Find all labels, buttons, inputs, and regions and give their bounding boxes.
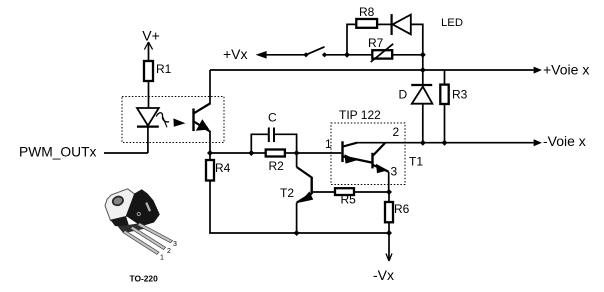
junction D bottom — [420, 140, 426, 146]
wire switch to R7 junction — [325, 54, 348, 56]
transistor T1b (darlington second) — [373, 143, 389, 173]
optocoupler dashed box — [122, 97, 224, 143]
svg-text:R2: R2 — [269, 159, 285, 173]
svg-text:D: D — [399, 88, 408, 102]
junction D top — [420, 67, 426, 73]
svg-text:+Voie x: +Voie x — [543, 62, 589, 78]
svg-text:TO-220: TO-220 — [130, 274, 159, 284]
wire bottom rail — [297, 232, 389, 234]
junction bottom rail -Vx — [386, 230, 392, 236]
svg-text:T1: T1 — [409, 154, 423, 168]
wire R5 to pin3 junction — [354, 191, 389, 193]
transistor T1a (darlington first) — [343, 141, 372, 163]
svg-text:R4: R4 — [215, 161, 231, 175]
svg-text:C: C — [268, 111, 277, 125]
TO-220 leg 1 — [123, 230, 159, 254]
wire down to +Voie rail — [422, 55, 424, 70]
capacitor C — [269, 128, 274, 143]
wire junction to TIP pin1 — [297, 152, 342, 154]
transistor T2 — [297, 153, 314, 233]
TO-220 body left bottom face — [110, 216, 129, 228]
node -Vx arrow — [386, 233, 392, 261]
switch S1 — [303, 47, 327, 58]
wire R4 top — [209, 153, 211, 160]
svg-text:R3: R3 — [452, 88, 468, 102]
resistor R1 — [144, 61, 153, 81]
resistor R8 — [356, 19, 377, 28]
junction C right / T2 collector — [294, 150, 300, 156]
svg-text:R1: R1 — [156, 62, 172, 76]
svg-text:2: 2 — [167, 248, 171, 255]
opto light arrow — [156, 113, 185, 128]
node V+ arrow — [144, 42, 152, 50]
resistor R7 (adjustable) — [347, 54, 372, 56]
junction opto emitter / R4 / R2 — [207, 150, 213, 156]
diode LED — [392, 14, 411, 35]
svg-text:-Voie x: -Voie x — [543, 133, 586, 149]
wire collectors to pin2 / -Voie rail — [357, 142, 534, 144]
svg-text:V+: V+ — [142, 28, 160, 44]
node +Vx arrow — [256, 51, 267, 59]
wire R7 right to junction — [392, 54, 423, 56]
node +Voie x arrow — [534, 67, 542, 74]
wire LED cathode down to PWM line — [147, 128, 149, 154]
wire +Vx rail from opto collector to +Voie x — [210, 69, 534, 71]
svg-text:R5: R5 — [341, 193, 357, 207]
TO-220 leg 2 — [131, 226, 166, 249]
resistor R4 — [206, 160, 214, 181]
wire R4 bottom to rail — [210, 181, 297, 234]
TO-220 mounting hole — [112, 195, 125, 206]
wire T2 base to R5 — [313, 191, 335, 193]
junction R7/R8 left — [344, 52, 350, 58]
svg-text:1: 1 — [325, 137, 332, 151]
TO-220 plastic body — [126, 189, 160, 226]
wire V+ to R1 — [148, 42, 150, 61]
junction pin3/R5/R6 — [386, 189, 392, 195]
svg-text:TIP 122: TIP 122 — [339, 108, 381, 122]
wire opto emitter down — [209, 131, 211, 153]
wire up to R8 — [347, 24, 356, 54]
diode D — [411, 70, 432, 143]
wire R8 to LED — [377, 23, 391, 25]
svg-text:1: 1 — [160, 254, 164, 261]
svg-text:3: 3 — [391, 165, 398, 179]
TO-220 leg 3 — [138, 223, 173, 243]
wire T1 emitter down to pin3 junction — [388, 172, 390, 192]
resistor R3 — [440, 70, 448, 143]
TIP122 dashed box — [331, 123, 405, 185]
svg-text:3: 3 — [173, 241, 177, 248]
wire R1 to LED anode — [148, 81, 150, 108]
wire opto collector up to +Vx rail — [209, 70, 211, 105]
resistor R5 — [335, 188, 354, 195]
wire R2 right to junction — [285, 152, 297, 154]
svg-text:LED: LED — [441, 17, 463, 29]
svg-text:R6: R6 — [394, 202, 410, 216]
TO-220 body circle mark — [137, 212, 140, 215]
svg-text:2: 2 — [393, 125, 400, 139]
wire R6 bottom — [388, 222, 390, 233]
resistor R6 — [388, 192, 390, 202]
resistor R2 — [251, 152, 265, 154]
junction R3 bottom — [442, 140, 448, 146]
svg-text:PWM_OUTx: PWM_OUTx — [19, 145, 97, 160]
TO-220 metal tab — [105, 189, 135, 221]
TO-220 bottom face — [118, 223, 146, 233]
svg-text:+Vx: +Vx — [223, 46, 248, 62]
wire PWM_OUTx to LED — [104, 152, 148, 154]
svg-text:-Vx: -Vx — [373, 267, 394, 283]
wire +Vx to switch — [265, 54, 306, 56]
junction R7/LED right — [420, 52, 426, 58]
capacitor C branch wires — [251, 134, 268, 153]
wire junction to C/R2 — [210, 152, 251, 154]
TO-220 package drawing — [105, 189, 177, 284]
svg-text:T2: T2 — [280, 186, 294, 200]
junction C left — [248, 150, 254, 156]
opto phototransistor — [194, 104, 211, 132]
junction bottom rail T2 emitter — [294, 230, 300, 236]
TO-220 body edge highlight — [145, 202, 151, 212]
svg-text:R8: R8 — [359, 5, 375, 19]
opto LED D1 — [137, 108, 159, 127]
node -Voie x arrow — [534, 139, 542, 146]
svg-text:R7: R7 — [368, 36, 384, 50]
wire LED to corner down — [411, 24, 423, 54]
